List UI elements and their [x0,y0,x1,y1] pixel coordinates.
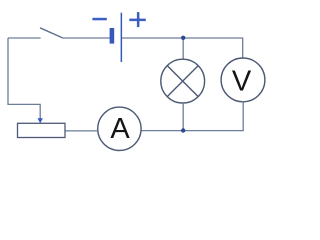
switch (open lever) [40,28,63,38]
voltmeter U (circle) [221,58,265,102]
battery positive plate (thin tall line) [121,13,123,62]
rheostat wiper arrowhead [38,118,43,123]
wire battery to top-right corner and down to voltmeter [122,38,243,58]
lamp (circle with X) [161,59,205,103]
node junction dot (top) [181,36,185,40]
wire switch to battery [63,37,110,39]
wire voltmeter bottom to bottom rail corner [141,102,243,131]
label + (plus) [129,12,146,27]
ammeter (circle) [98,107,141,150]
wire left vertical + rheostat feeder [8,38,40,119]
wire top-left horizontal to switch contact [8,37,41,39]
svg-text:V: V [232,66,252,98]
wire rheostat to ammeter [65,130,98,132]
wire lamp bottom to bottom rail [182,103,184,131]
svg-text:A: A [110,113,130,145]
rheostat body (box) [18,123,66,137]
label - (minus) [92,18,106,21]
battery negative plate (thick short bar) [110,28,115,44]
node junction dot (bottom) [181,128,185,132]
wire junction to lamp top [182,38,184,59]
